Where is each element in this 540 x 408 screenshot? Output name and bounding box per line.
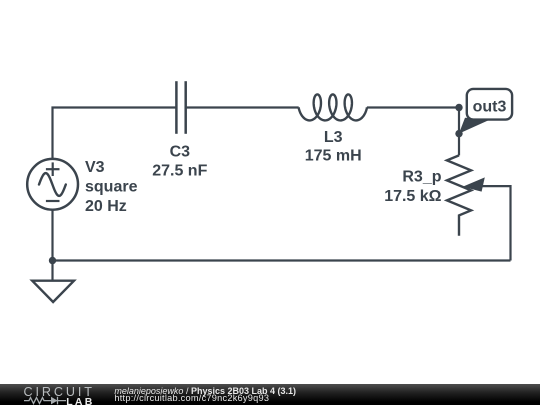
svg-text:27.5 nF: 27.5 nF [152,162,207,179]
wire node down to resistor top [458,108,460,156]
footer line 2 url [114,393,269,403]
junction node dot at flag anchor [455,130,462,137]
wire potentiometer wiper to right rail [481,186,511,260]
svg-text:20 Hz: 20 Hz [85,198,127,215]
voltage source minus sign [46,200,60,202]
resistor R3_p zigzag (potentiometer body) [447,155,471,235]
CircuitLab logo mini schematic and LAB [24,396,99,406]
out3 flag tail [459,118,491,134]
footer line 1 attribution [114,386,296,396]
svg-text:square: square [85,179,138,196]
wire bottom rail [53,259,511,261]
inductor L3 coil [299,94,367,120]
junction node dot at out3 tap [455,104,462,111]
capacitor C3 plates [176,81,185,134]
junction node dot at ground [49,257,56,264]
wire capacitor right to inductor left [186,106,299,108]
svg-text:R3_p: R3_p [402,169,441,186]
svg-text:V3: V3 [85,159,105,176]
svg-text:out3: out3 [473,99,507,116]
logo resistor squiggle [24,398,49,404]
ground symbol triangle [32,281,74,302]
wire ground stem [51,261,53,281]
voltage source V3 circle [27,159,78,210]
svg-text:17.5 kΩ: 17.5 kΩ [384,188,441,205]
voltage source sine wave [39,173,66,196]
wire top-left vertical (source top to top rail) [53,108,177,159]
voltage source plus sign [46,162,60,176]
footer bar [0,384,540,405]
wire inductor right to node out3 [367,106,459,108]
out3 flag body [467,89,512,120]
potentiometer wiper arrow [463,177,485,191]
CircuitLab logo LAB text [66,396,94,408]
svg-text:C3: C3 [170,143,191,160]
CircuitLab logo CIRCUIT text [24,385,95,399]
svg-text:175 mH: 175 mH [305,147,362,164]
svg-text:L3: L3 [324,129,343,146]
wire source bottom to bottom rail [51,210,53,261]
logo diode [51,397,58,405]
